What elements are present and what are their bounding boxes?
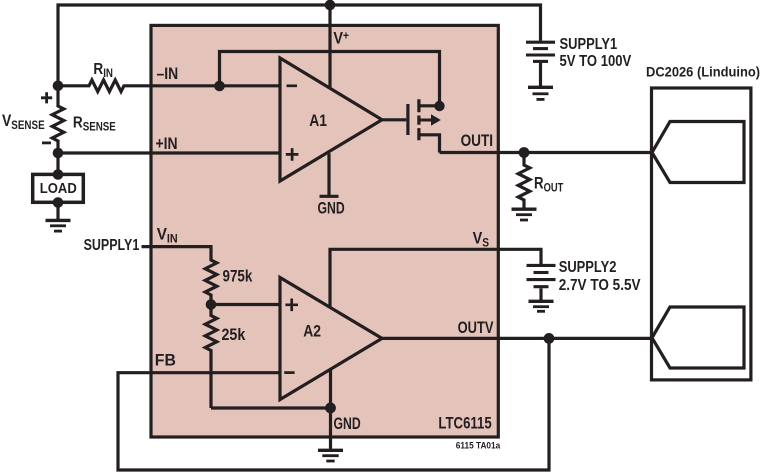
VSENSE plus sign <box>41 92 52 103</box>
svg-text:2.7V TO 5.5V: 2.7V TO 5.5V <box>559 277 641 294</box>
transistor Q1 MOSFET <box>382 99 441 152</box>
ground (SUPPLY2) <box>529 301 554 311</box>
wire VIN from SUPPLY1 with resistor 975k <box>142 247 217 305</box>
load box <box>33 174 84 202</box>
channel segments <box>417 99 420 140</box>
svg-text:ROUT: ROUT <box>534 174 564 195</box>
wire -IN with resistor RIN <box>58 80 280 92</box>
svg-text:+IN: +IN <box>156 135 178 154</box>
wire V+ branch <box>328 5 331 89</box>
wire feedback loop FB <box>118 338 549 470</box>
op-amp A1 <box>280 58 382 181</box>
ground (load) <box>46 220 71 231</box>
ground (ROUT) <box>512 209 537 220</box>
wire VS to SUPPLY2 <box>330 249 541 306</box>
source stub <box>420 135 440 153</box>
connector plug top <box>652 122 744 183</box>
wire +IN <box>58 151 280 154</box>
op-amp A1 minus input symbol <box>287 84 298 87</box>
svg-text:SUPPLY1: SUPPLY1 <box>560 36 618 53</box>
node OUTV <box>544 333 555 344</box>
connector DC2026 outer box <box>652 88 751 380</box>
wire A2 output OUTV to connector <box>382 337 652 340</box>
body arrow <box>420 119 431 122</box>
svg-text:SUPPLY2: SUPPLY2 <box>559 259 617 276</box>
svg-text:FB: FB <box>155 351 176 370</box>
svg-text:OUTI: OUTI <box>461 131 493 150</box>
op-amp A2 ground stub <box>329 369 332 449</box>
svg-text:A2: A2 <box>303 322 321 341</box>
svg-text:6115 TA01a: 6115 TA01a <box>456 440 501 450</box>
svg-text:VSENSE: VSENSE <box>2 112 45 132</box>
svg-text:SUPPLY1: SUPPLY1 <box>84 236 140 254</box>
battery SUPPLY2 <box>527 265 556 301</box>
IC body LTC6115 (shaded box) <box>151 25 498 437</box>
op-amp A1 ground stub <box>320 153 339 196</box>
VSENSE minus sign <box>42 141 51 144</box>
svg-text:LOAD: LOAD <box>40 179 77 196</box>
resistor 25k <box>205 305 217 409</box>
ground (A2 GND) <box>318 450 343 461</box>
node A2 gnd <box>325 403 336 414</box>
node -IN <box>214 81 225 92</box>
battery SUPPLY1 <box>526 42 555 87</box>
svg-text:GND: GND <box>318 200 345 218</box>
node OUTI <box>519 147 530 158</box>
svg-text:OUTV: OUTV <box>458 318 494 337</box>
node V+ rail <box>325 0 336 10</box>
drain stub <box>420 104 440 107</box>
svg-text:5V TO 100V: 5V TO 100V <box>560 53 632 70</box>
node divider <box>206 299 217 310</box>
node load bottom <box>53 197 64 208</box>
resistor ROUT <box>518 153 530 210</box>
gate plate <box>406 104 409 135</box>
wire top supply rail <box>58 5 541 86</box>
svg-text:A1: A1 <box>309 112 327 131</box>
svg-text:–IN: –IN <box>157 65 179 84</box>
wire -IN node to MOSFET drain <box>220 52 440 107</box>
wire 25k bottom to A2 ground <box>211 406 331 409</box>
wire OUTI to connector <box>440 151 653 154</box>
op-amp A2 <box>280 278 382 400</box>
svg-text:RSENSE: RSENSE <box>73 115 116 134</box>
connector plug bottom <box>652 307 744 368</box>
wire divider to A2 plus input <box>211 303 280 306</box>
svg-text:GND: GND <box>334 415 361 433</box>
svg-text:DC2026 (Linduino): DC2026 (Linduino) <box>646 64 760 80</box>
op-amp A1 plus input symbol <box>286 148 299 161</box>
node VSENSE bottom / +IN <box>53 148 64 159</box>
wire load to ground <box>56 153 59 220</box>
node MOSFET drain <box>434 101 444 111</box>
ground (SUPPLY1) <box>528 87 553 99</box>
svg-text:975k: 975k <box>223 267 253 286</box>
op-amp A2 minus input symbol <box>284 371 294 374</box>
svg-text:LTC6115: LTC6115 <box>438 414 491 433</box>
node load top <box>53 169 64 180</box>
svg-text:25k: 25k <box>222 326 246 344</box>
node VSENSE top <box>53 81 64 92</box>
svg-text:RIN: RIN <box>93 61 113 80</box>
gate wire from A1 output <box>382 118 406 121</box>
op-amp A2 plus input symbol <box>285 299 298 312</box>
resistor RSENSE <box>52 86 64 153</box>
